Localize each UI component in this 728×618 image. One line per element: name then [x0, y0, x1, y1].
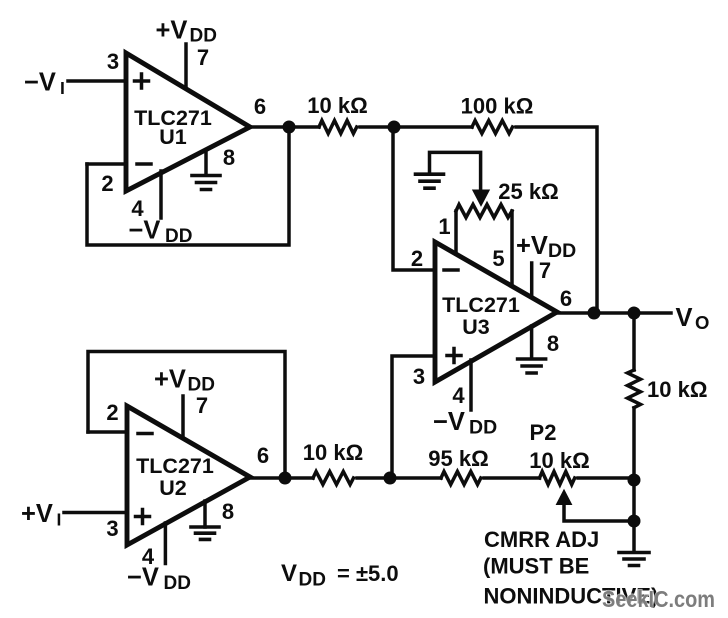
svg-text:−V: −V	[127, 564, 159, 592]
junction dot VO branch	[628, 307, 641, 320]
U1 minus input symbol	[137, 162, 151, 166]
svg-text:−V: −V	[24, 69, 56, 97]
svg-text:(MUST BE: (MUST BE	[483, 554, 589, 579]
wire U3 inverting input node	[393, 127, 435, 270]
wire U3 pin 8 to ground	[530, 326, 534, 358]
wire U2 pin 4 to -VDD	[164, 523, 168, 564]
wire R3 to R4	[357, 476, 441, 480]
svg-text:95 kΩ: 95 kΩ	[428, 446, 488, 471]
wire U3 pin 4 to -VDD	[469, 360, 473, 410]
wire U1 output	[250, 125, 319, 129]
svg-text:+V: +V	[154, 366, 186, 394]
svg-text:O: O	[695, 312, 709, 333]
wire U2 pin 8 to ground	[203, 501, 207, 527]
resistor R2 100k	[472, 121, 512, 134]
svg-text:7: 7	[197, 45, 209, 70]
svg-text:25 kΩ: 25 kΩ	[498, 179, 558, 204]
op-amp U2	[127, 406, 250, 545]
wire P2 to right branch	[578, 476, 634, 480]
wire U1 pin 2	[87, 162, 126, 166]
wiper arrow of P2	[556, 490, 571, 505]
junction dot U2 output	[279, 472, 292, 485]
wire 25k right terminal to U3 pin 5	[510, 211, 514, 285]
wiper arrow of 25k potentiometer	[473, 190, 490, 206]
wire R4 to P2	[484, 476, 540, 480]
svg-text:I: I	[57, 510, 62, 530]
wire U1 feedback loop	[87, 127, 289, 245]
wire P2 wiper to ground node	[564, 503, 634, 521]
junction dot U3 inverting node	[388, 121, 401, 134]
svg-text:6: 6	[254, 94, 266, 119]
svg-text:100 kΩ: 100 kΩ	[461, 94, 534, 119]
svg-text:4: 4	[452, 383, 465, 408]
svg-text:TLC271: TLC271	[136, 454, 214, 478]
ground bottom right	[632, 521, 636, 551]
ground for 25k wiper	[430, 152, 481, 191]
svg-text:+V: +V	[21, 500, 53, 528]
svg-text:+V: +V	[156, 17, 188, 45]
U2 minus input symbol	[138, 432, 152, 436]
junction dot right branch lower	[628, 515, 641, 528]
op-amp U3	[435, 242, 557, 382]
wire U2 output	[250, 476, 313, 480]
svg-text:10 kΩ: 10 kΩ	[303, 440, 363, 465]
svg-text:3: 3	[413, 364, 425, 389]
svg-text:10 kΩ: 10 kΩ	[307, 93, 367, 118]
svg-text:SeekIC.com: SeekIC.com	[602, 586, 715, 612]
wire U3 output to VO	[557, 311, 671, 315]
wire U2 feedback loop	[88, 352, 285, 479]
svg-text:DD: DD	[164, 573, 191, 594]
wire R1 to R2	[360, 125, 472, 129]
svg-text:2: 2	[411, 246, 423, 271]
wire input +VI to U2 pin 3	[64, 511, 127, 515]
wire R2 to U3 output node	[516, 127, 597, 313]
resistor R1 10k top	[319, 121, 357, 134]
svg-text:TLC271: TLC271	[442, 293, 520, 317]
op-amp U1	[126, 53, 250, 191]
svg-text:2: 2	[101, 171, 113, 196]
wire U1 pin 8 to ground	[204, 150, 208, 175]
resistor R4 95k	[441, 472, 481, 485]
junction dot U3 output	[588, 307, 601, 320]
wire input -VI to U1 pin 3	[68, 79, 126, 83]
svg-text:10 kΩ: 10 kΩ	[647, 377, 707, 402]
wire right branch with 10k to lower node	[632, 313, 636, 521]
svg-text:−V: −V	[433, 408, 465, 436]
svg-text:2: 2	[106, 400, 118, 425]
svg-text:V: V	[281, 560, 297, 587]
wire U1 pin 4 to -VDD	[159, 171, 163, 218]
svg-text:6: 6	[560, 286, 572, 311]
ground at U2 pin 8	[191, 527, 219, 539]
wire +VDD to U1 pin 7	[184, 44, 188, 87]
svg-text:DD: DD	[165, 226, 192, 247]
svg-text:1: 1	[438, 214, 450, 239]
svg-text:5: 5	[492, 246, 504, 271]
svg-text:V: V	[676, 304, 693, 332]
svg-text:U3: U3	[462, 315, 490, 339]
ground at U1 pin 8	[192, 176, 220, 190]
wire 25k left terminal to U3 pin 1	[454, 211, 458, 254]
svg-text:U1: U1	[159, 125, 187, 149]
wire U2 pin 2	[88, 430, 127, 434]
svg-text:8: 8	[547, 331, 559, 356]
U3 minus input symbol	[444, 268, 458, 272]
U3 plus input symbol	[447, 349, 461, 363]
potentiometer P2 10k body	[540, 472, 575, 485]
svg-text:CMRR ADJ: CMRR ADJ	[484, 527, 599, 552]
svg-text:+V: +V	[516, 232, 548, 260]
junction dot right branch upper	[628, 474, 641, 487]
svg-text:3: 3	[106, 516, 118, 541]
svg-text:8: 8	[223, 145, 235, 170]
svg-text:−V: −V	[129, 217, 161, 245]
svg-text:DD: DD	[299, 570, 326, 591]
svg-text:8: 8	[222, 499, 234, 524]
svg-text:DD: DD	[190, 26, 217, 47]
svg-text:U2: U2	[159, 476, 187, 500]
svg-text:DD: DD	[469, 417, 497, 439]
resistor R5 10k vertical	[628, 370, 641, 408]
svg-text:P2: P2	[530, 420, 557, 445]
svg-text:= ±5.0: = ±5.0	[337, 561, 399, 586]
svg-text:I: I	[60, 78, 65, 98]
wire +VDD to U2 pin 7	[181, 396, 185, 437]
junction dot U3 non-inverting node	[384, 472, 397, 485]
potentiometer 25k body	[456, 205, 512, 218]
wire U3 pin 3 from lower node	[392, 356, 435, 479]
wire +VDD to U3 pin 7	[530, 263, 534, 296]
U2 plus input symbol	[136, 510, 150, 524]
svg-text:3: 3	[107, 49, 119, 74]
junction dot U1 output	[283, 121, 296, 134]
svg-text:10 kΩ: 10 kΩ	[529, 448, 589, 473]
svg-text:6: 6	[257, 443, 269, 468]
svg-text:7: 7	[196, 393, 208, 418]
svg-text:7: 7	[539, 258, 551, 283]
ground at U3 pin 8	[518, 359, 546, 373]
resistor R3 10k bottom	[313, 472, 353, 485]
svg-text:DD: DD	[548, 240, 576, 262]
U1 plus input symbol	[135, 74, 149, 88]
